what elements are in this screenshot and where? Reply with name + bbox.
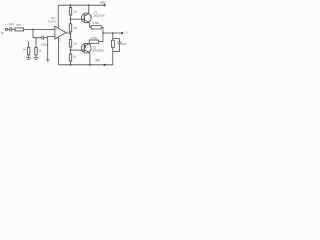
node (70, 4, 72, 6)
wire (70, 5, 72, 7)
wire V- (57, 37, 59, 65)
svg-text:0.5Ω: 0.5Ω (91, 36, 97, 40)
node (88, 4, 90, 6)
wire (28, 55, 30, 58)
resistor R7 1k (69, 54, 71, 61)
resistor R2 (27, 47, 29, 55)
node (70, 18, 72, 20)
svg-text:2k: 2k (38, 48, 42, 52)
svg-text:TL071: TL071 (47, 19, 56, 23)
capacitor C2 100p (41, 36, 43, 40)
svg-text:0.5Ω: 0.5Ω (93, 21, 100, 25)
wire (112, 47, 114, 65)
ground (46, 59, 49, 61)
svg-text:22u: 22u (9, 22, 14, 26)
svg-text:-: - (56, 35, 57, 39)
capacitor C3 (119, 39, 121, 43)
wire (35, 55, 37, 58)
wire inverting input (48, 36, 55, 59)
wire output node (103, 32, 122, 34)
capacitor C1 22u (9, 27, 11, 32)
ground (34, 57, 39, 59)
wire (70, 32, 72, 40)
wire (102, 27, 104, 41)
wire V+ (57, 5, 59, 28)
svg-text:10u: 10u (122, 42, 127, 46)
op-amp U1 (55, 26, 66, 39)
wire (35, 38, 37, 48)
svg-text:47k: 47k (16, 23, 21, 27)
wire (70, 47, 72, 54)
wire (44, 37, 48, 39)
svg-text:2N2219A: 2N2219A (94, 14, 105, 18)
resistor R1 47k (15, 28, 24, 31)
node (89, 64, 91, 66)
resistor R8 0.5 ohm (91, 26, 101, 30)
svg-text:1k: 1k (74, 42, 78, 46)
wire (33, 29, 42, 37)
svg-text:1k: 1k (22, 47, 26, 51)
resistor R10 load (111, 40, 114, 47)
svg-text:1k: 1k (74, 10, 78, 14)
resistor R3 (35, 47, 37, 55)
wire +9V rail (58, 4, 104, 6)
svg-text:+: + (56, 28, 58, 32)
wire (28, 42, 30, 48)
svg-text:1k: 1k (74, 26, 78, 30)
transistor Q1 (81, 13, 91, 23)
svg-text:100p: 100p (41, 42, 48, 46)
wire T2 base (71, 49, 82, 51)
wire T1 base (71, 18, 82, 20)
wire (70, 15, 72, 24)
ground (26, 57, 31, 59)
wire (24, 28, 55, 30)
svg-text:-9V: -9V (95, 59, 101, 63)
svg-text:LS: LS (125, 31, 128, 35)
node A (32, 29, 34, 31)
wire (12, 28, 15, 30)
resistor R9 0.5 ohm (89, 40, 98, 43)
svg-text:1k: 1k (73, 55, 77, 59)
svg-text:2N2905A: 2N2905A (93, 48, 104, 52)
input terminal In (5, 28, 7, 30)
svg-text:+9V: +9V (100, 1, 107, 5)
node (70, 33, 72, 35)
resistor R4 1k (69, 8, 71, 16)
terminal +9V (103, 4, 105, 6)
wire output (66, 32, 70, 34)
svg-text:In: In (1, 31, 4, 35)
wire (70, 61, 72, 65)
transistor Q2 (81, 43, 91, 53)
node (70, 49, 72, 51)
wire (8, 28, 11, 30)
terminal output (121, 32, 123, 34)
terminal -9V (103, 64, 105, 66)
wire (112, 33, 114, 40)
node (70, 64, 72, 66)
wire -9V rail (58, 64, 112, 66)
resistor R6 1k (69, 40, 71, 47)
resistor R5 1k (69, 24, 71, 32)
